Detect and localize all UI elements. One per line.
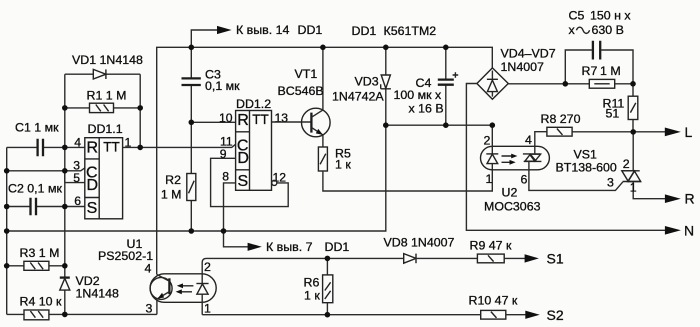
triac VS1 bbox=[633, 132, 665, 199]
zener VD3 bbox=[385, 47, 387, 125]
resistor R5 bbox=[318, 147, 327, 171]
svg-text:2: 2 bbox=[484, 133, 491, 147]
svg-text:VS1: VS1 bbox=[574, 148, 598, 162]
pin 12 inversion bubble bbox=[272, 180, 277, 185]
svg-text:x: x bbox=[569, 23, 576, 37]
wire U2 pin6 to gate bbox=[529, 161, 623, 190]
U2 light arrows bbox=[502, 156, 514, 162]
svg-text:TT: TT bbox=[252, 112, 269, 127]
capacitor C3 bbox=[190, 47, 192, 122]
svg-text:3: 3 bbox=[607, 176, 614, 190]
svg-text:0,1 мк: 0,1 мк bbox=[205, 79, 240, 93]
diode VD1 bbox=[65, 74, 140, 147]
capacitor C5 bbox=[565, 50, 633, 84]
svg-text:1N4007: 1N4007 bbox=[501, 60, 545, 74]
resistor R10 bbox=[481, 310, 506, 319]
svg-text:1 к: 1 к bbox=[335, 158, 351, 172]
arrow К выв. 14 DD1 bbox=[191, 30, 217, 47]
svg-text:S: S bbox=[87, 200, 98, 217]
svg-text:R7: R7 bbox=[582, 64, 598, 78]
svg-text:150 н x: 150 н x bbox=[590, 9, 631, 23]
svg-text:R9 47 к: R9 47 к bbox=[470, 239, 513, 253]
resistor R1 bbox=[65, 107, 140, 109]
svg-text:PS2502-1: PS2502-1 bbox=[98, 249, 153, 263]
svg-text:9: 9 bbox=[220, 147, 227, 161]
node A vertical line bbox=[64, 74, 66, 314]
svg-text:C5: C5 bbox=[569, 9, 585, 23]
svg-text:6: 6 bbox=[74, 194, 81, 208]
svg-text:1 к: 1 к bbox=[304, 289, 320, 303]
svg-text:К561ТМ2: К561ТМ2 bbox=[384, 24, 437, 38]
arrow К выв. 7 DD1 bbox=[224, 231, 249, 247]
svg-text:8: 8 bbox=[222, 169, 229, 183]
svg-text:BC546B: BC546B bbox=[278, 84, 324, 98]
wire bridge left to N rail bbox=[466, 84, 665, 231]
wire C1 row bbox=[7, 146, 85, 148]
svg-text:3: 3 bbox=[146, 302, 153, 316]
resistor R9 bbox=[477, 254, 504, 263]
svg-text:D: D bbox=[237, 150, 249, 167]
resistor R6 bbox=[326, 258, 328, 314]
svg-text:DD1.2: DD1.2 bbox=[236, 97, 271, 111]
svg-text:1 M: 1 M bbox=[600, 64, 621, 78]
svg-text:R2: R2 bbox=[165, 173, 181, 187]
wire C2 row bbox=[7, 206, 85, 208]
arrow N bbox=[665, 226, 681, 235]
svg-text:S: S bbox=[237, 173, 248, 190]
svg-text:1N4148: 1N4148 bbox=[76, 287, 120, 301]
wire VT1 emitter to U2 pin1 bbox=[323, 164, 492, 191]
wire DD1.2 pin10 row bbox=[191, 121, 235, 123]
arrow S2 bbox=[525, 311, 540, 319]
wire left rail bbox=[6, 147, 8, 314]
U2 photo-triac bbox=[523, 154, 542, 162]
resistor R8 bbox=[547, 127, 572, 136]
wire U1 pin2 to S1 line bbox=[202, 258, 404, 262]
U1 phototransistor bbox=[150, 277, 172, 299]
bridge rectifier VD4-VD7 bbox=[477, 68, 508, 99]
resistor R2 bbox=[190, 122, 192, 231]
arrow R bbox=[665, 194, 681, 203]
wire DD1.2 pin13 to VT1 base bbox=[272, 121, 312, 123]
svg-text:U2: U2 bbox=[502, 186, 518, 200]
diode VD2 bbox=[60, 276, 70, 278]
wire DD1.2 pin8 to ground rail bbox=[224, 183, 236, 231]
svg-text:R: R bbox=[685, 190, 695, 206]
svg-text:R10 47 к: R10 47 к bbox=[469, 293, 518, 307]
flip-flop DD1.2 bbox=[236, 111, 272, 191]
svg-text:2: 2 bbox=[204, 260, 211, 274]
resistor R7 bbox=[589, 79, 614, 88]
svg-text:5: 5 bbox=[73, 171, 80, 185]
svg-text:4: 4 bbox=[74, 135, 81, 149]
svg-text:R3 1 M: R3 1 M bbox=[20, 246, 60, 260]
svg-text:6: 6 bbox=[521, 173, 528, 187]
svg-text:D: D bbox=[87, 177, 99, 194]
svg-text:100 мк x: 100 мк x bbox=[394, 88, 442, 102]
svg-text:4: 4 bbox=[525, 133, 532, 147]
svg-text:C1 1 мк: C1 1 мк bbox=[15, 121, 59, 135]
svg-text:VD3: VD3 bbox=[355, 75, 379, 89]
resistor R11 bbox=[632, 84, 634, 132]
svg-text:N: N bbox=[684, 222, 694, 238]
capacitor C4 bbox=[445, 47, 447, 125]
wire top +V rail bbox=[157, 47, 493, 274]
svg-text:1: 1 bbox=[486, 172, 493, 186]
wire pin3 row bbox=[7, 168, 85, 171]
wire S2 line bbox=[202, 314, 481, 316]
U1 light arrows bbox=[180, 286, 194, 292]
svg-text:10: 10 bbox=[219, 111, 233, 125]
wire ground rail bbox=[7, 125, 493, 231]
diode VD8 bbox=[404, 254, 416, 264]
svg-text:1: 1 bbox=[630, 181, 637, 195]
svg-text:51: 51 bbox=[606, 107, 620, 121]
svg-text:R8 270: R8 270 bbox=[541, 112, 581, 126]
arrow S1 bbox=[525, 254, 539, 262]
svg-text:DD1.1: DD1.1 bbox=[88, 122, 123, 136]
svg-text:DD1: DD1 bbox=[325, 240, 350, 254]
transistor VT1 bbox=[302, 108, 331, 137]
wire DD1.1 pin1 to DD1.2 pin11 bbox=[123, 144, 236, 147]
svg-text:R4 10 к: R4 10 к bbox=[20, 295, 63, 309]
svg-text:VD1 1N4148: VD1 1N4148 bbox=[72, 53, 143, 67]
svg-text:TT: TT bbox=[103, 139, 120, 154]
svg-text:DD1: DD1 bbox=[298, 23, 323, 37]
svg-text:4: 4 bbox=[145, 262, 152, 276]
resistor R3 bbox=[7, 265, 65, 267]
wire U1 pin3 bbox=[156, 299, 158, 315]
svg-text:13: 13 bbox=[275, 111, 289, 125]
optocoupler U2 bbox=[481, 146, 550, 170]
arrow L bbox=[665, 128, 681, 137]
svg-text:630 В: 630 В bbox=[592, 23, 624, 37]
wire pin5 stub bbox=[65, 171, 85, 183]
svg-text:1: 1 bbox=[204, 302, 211, 316]
svg-text:VD4–VD7: VD4–VD7 bbox=[501, 47, 556, 61]
optocoupler U1 bbox=[150, 274, 216, 303]
svg-text:К выв. 14: К выв. 14 bbox=[236, 23, 290, 37]
svg-text:R6: R6 bbox=[304, 276, 320, 290]
svg-text:К выв. 7: К выв. 7 bbox=[266, 240, 313, 254]
capacitor C1 bbox=[38, 139, 43, 156]
U2 LED bbox=[491, 125, 493, 154]
resistor R4 bbox=[7, 313, 157, 315]
svg-text:C2 0,1 мк: C2 0,1 мк bbox=[8, 182, 62, 196]
svg-text:L: L bbox=[685, 124, 693, 140]
wire bridge right to R7 node bbox=[508, 83, 589, 85]
svg-text:MOC3063: MOC3063 bbox=[484, 200, 541, 214]
wire U2 pin4 to R8 bbox=[535, 132, 547, 154]
svg-text:S2: S2 bbox=[547, 307, 564, 323]
svg-text:R: R bbox=[237, 112, 249, 129]
svg-text:VD8 1N4007: VD8 1N4007 bbox=[384, 235, 455, 249]
wire L line bbox=[572, 131, 665, 133]
svg-text:2: 2 bbox=[623, 157, 630, 171]
svg-text:R: R bbox=[87, 139, 99, 156]
U1 LED bbox=[196, 283, 208, 285]
svg-text:1 M: 1 M bbox=[161, 188, 182, 202]
svg-text:VT1: VT1 bbox=[295, 67, 318, 81]
flip-flop DD1.1 bbox=[85, 138, 123, 219]
svg-text:S1: S1 bbox=[547, 251, 564, 267]
svg-text:1N4742A: 1N4742A bbox=[332, 90, 384, 104]
wire DD1.2 pin9 feedback loop bbox=[211, 158, 289, 206]
svg-text:x 16 В: x 16 В bbox=[409, 102, 444, 116]
svg-text:BT138-600: BT138-600 bbox=[556, 161, 617, 175]
capacitor C2 bbox=[31, 198, 37, 215]
svg-text:DD1: DD1 bbox=[352, 24, 377, 38]
svg-text:R1 1 M: R1 1 M bbox=[87, 89, 127, 103]
